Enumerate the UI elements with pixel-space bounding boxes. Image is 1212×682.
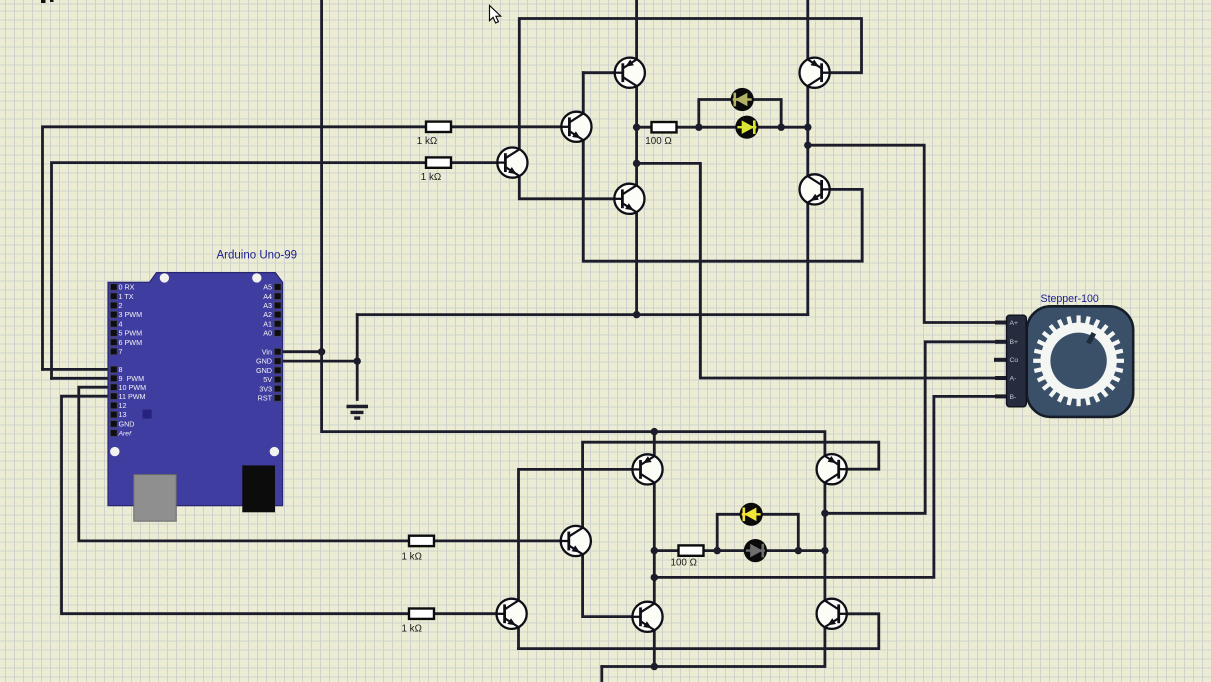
svg-text:100 Ω: 100 Ω [645,136,671,147]
junction [651,663,658,670]
wire phase A+ to stepper [808,145,1007,322]
svg-text:13: 13 [119,410,127,419]
Arduino power jack [242,465,275,512]
svg-text:12: 12 [119,401,127,410]
svg-text:4: 4 [119,319,123,328]
svg-text:A5: A5 [263,283,272,292]
resistor R6 (100 &#937;) [671,545,704,568]
wire Q2 emitter to Q4 base [519,176,622,199]
svg-text:GND: GND [256,366,272,375]
stepper pin block [1007,315,1027,407]
wire D4 to column [767,549,825,552]
junction [633,124,640,131]
svg-text:7: 7 [119,347,123,356]
wire to Arduino pin 8 [43,368,111,371]
svg-text:100 Ω: 100 Ω [671,558,697,569]
resistor R1 (1 k&#937;) [417,122,451,148]
wire Q8 collector to Q11 base [583,442,879,528]
svg-text:8: 8 [119,365,123,374]
wire Q12 emitter return [602,627,825,666]
wire Q8 emitter to Q10 base [583,555,641,617]
wire net D8 to R1 to Q3 base [43,127,562,370]
svg-text:GND: GND [119,419,135,428]
wire to Arduino pin 9 [52,377,111,380]
junction Vin tap [318,348,325,355]
wire Q12 base return [519,614,879,649]
wire column Q7 collector to Q10 collector [653,483,656,603]
junction [695,124,702,131]
LED D3 [740,503,763,526]
svg-text:9 PWM: 9 PWM [119,374,145,383]
svg-text:11 PWM: 11 PWM [119,392,146,401]
wire Q1 base to Q3 collector [582,73,585,114]
svg-text:1 kΩ: 1 kΩ [417,136,437,147]
LED D4 [744,539,767,562]
wire Q1 emitter to top edge [635,0,638,59]
wire stub off bottom edge [600,667,603,682]
svg-text:3 PWM: 3 PWM [119,310,143,319]
Arduino pin labels [118,283,273,438]
wire bypass up to D3 [717,514,740,550]
wire Q9 collector to Q7 base [519,469,641,600]
svg-text:Vin: Vin [262,347,272,356]
svg-text:0 RX: 0 RX [119,283,135,292]
junction [651,428,658,435]
junction [714,547,721,554]
svg-text:A2: A2 [263,310,272,319]
wire D1 down to main row [754,100,782,128]
wire phase B+ to stepper [825,342,1007,514]
svg-text:1 kΩ: 1 kΩ [402,552,422,563]
transistor Q3 (NPN) [561,112,592,142]
svg-text:Co: Co [1010,357,1019,364]
junction [633,160,640,167]
svg-text:B+: B+ [1010,339,1019,346]
resistor R5 (100 &#937;) [645,122,676,147]
wire Vin rail [322,0,825,456]
svg-text:B-: B- [1010,394,1017,401]
Arduino pin headers [111,284,282,436]
transistor Q4 (NPN) [614,184,645,214]
svg-text:3V3: 3V3 [259,384,272,393]
wire emitter return to GND net [357,313,808,316]
wire phase B- to stepper [654,396,1007,577]
svg-text:5V: 5V [263,375,272,384]
svg-text:1 kΩ: 1 kΩ [402,624,422,635]
svg-text:1 kΩ: 1 kΩ [421,172,441,183]
transistor Q8 (NPN) [560,526,591,556]
junction [821,510,828,517]
svg-text:1 TX: 1 TX [119,292,134,301]
transistor Q11 (PNP) [817,454,848,484]
junction [651,547,658,554]
transistor Q2 (NPN) [497,148,528,178]
wire to R5 [637,126,652,129]
svg-text:A3: A3 [263,301,272,310]
wire Q1 base stub [583,71,623,74]
wire to R6 [654,549,678,552]
wire R6 to D4 [704,549,745,552]
svg-text:A+: A+ [1010,320,1019,327]
wire Q6 emitter down [806,203,809,315]
junction [778,124,785,131]
wire bypass up to D1 [699,100,731,128]
Arduino USB connector [134,475,176,522]
svg-text:Aref: Aref [118,431,133,438]
wire stepper Co stub [996,358,1007,362]
transistor Q9 (NPN) [496,599,527,629]
wire D2 to column [758,126,807,129]
ground [347,407,369,419]
stepper rotor gear [1033,315,1124,406]
svg-text:2: 2 [119,301,123,310]
junction GND tap [354,357,361,364]
wire Vin to Q7 emitter [653,432,656,457]
wire net Q2.collector to Q5.base [519,19,861,150]
svg-text:A0: A0 [263,329,272,338]
svg-text:GND: GND [256,357,272,366]
wire net D10 to R3 to Q8 base [79,387,561,541]
mouse cursor [490,6,501,24]
transistor Q7 (PNP) [632,454,663,484]
wire Arduino GND stub [283,360,358,363]
wire Q4 emitter down [635,212,638,314]
resistor R2 (1 k&#937;) [421,157,451,183]
svg-text:Arduino Uno-99: Arduino Uno-99 [217,250,298,262]
svg-text:5 PWM: 5 PWM [119,329,143,338]
LED D2 [735,116,758,139]
junction [804,142,811,149]
stepper motor Stepper-100 body [1027,306,1133,417]
wire net D9 to R2 to Q2 base [52,163,498,379]
junction [633,311,640,318]
clipped text fragment at top edge [41,0,54,3]
wire column Q11 collector to Q12 collector [824,483,827,601]
wire Q9 emitter down [517,628,520,649]
wire net D11 to R4 to Q9 base [62,396,497,614]
svg-text:6 PWM: 6 PWM [119,338,143,347]
transistor Q1 (PNP) [614,58,645,88]
junction [795,547,802,554]
resistor R3 (1 k&#937;) [402,536,435,563]
wire stepper B+ pin stub [997,340,1007,344]
Arduino onboard LED L13 [143,410,152,419]
wire phase A- to stepper [637,163,1007,378]
resistor R4 (1 k&#937;) [402,609,435,635]
svg-text:A4: A4 [263,292,272,301]
wire stepper B- pin stub [997,394,1007,398]
junction [821,547,828,554]
wire column Q5 collector to Q6 collector [806,86,809,176]
transistor Q6 (NPN) [800,174,831,204]
wire Q10 emitter down [653,630,656,666]
svg-text:A1: A1 [263,319,272,328]
wire Q3 emitter to Q6 base [583,140,862,261]
wire column Q1 collector to Q4 collector [635,86,638,185]
Arduino Uno U1 board body [108,273,283,506]
wire GND net down to ground [356,315,359,400]
wire stepper A- pin stub [997,376,1007,380]
LED D1 [731,88,754,111]
svg-text:10 PWM: 10 PWM [119,383,147,392]
wire stepper A+ pin stub [997,321,1007,325]
svg-text:Stepper-100: Stepper-100 [1041,293,1099,305]
wire Q5 emitter to top edge [806,0,809,59]
svg-text:RST: RST [258,394,273,403]
wire R5 to D2 [677,126,736,129]
junction [804,124,811,131]
transistor Q10 (NPN) [632,602,663,632]
junction [651,574,658,581]
wire D3 down to main row [763,514,799,550]
transistor Q5 (PNP) [800,58,831,88]
wire Arduino Vin stub [283,350,322,353]
transistor Q12 (NPN) [817,599,848,629]
svg-text:A-: A- [1010,375,1017,382]
